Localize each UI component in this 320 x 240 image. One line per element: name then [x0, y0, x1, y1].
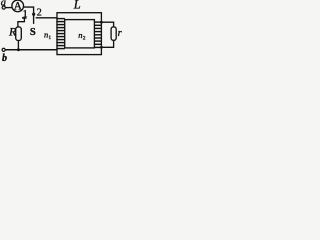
- svg-text:L: L: [73, 0, 81, 11]
- svg-text:a: a: [1, 0, 6, 8]
- ammeter A1 circle: [12, 0, 24, 12]
- junction dot at rail: [17, 48, 20, 51]
- svg-text:2: 2: [83, 36, 86, 42]
- svg-text:b: b: [2, 53, 7, 62]
- node b terminal: [2, 48, 5, 51]
- svg-text:A: A: [14, 1, 23, 13]
- secondary top tap dot: [100, 21, 103, 24]
- secondary bottom tap dot: [100, 46, 103, 49]
- svg-text:r: r: [118, 28, 122, 39]
- wire ammeter to switch corner: [24, 7, 34, 24]
- svg-text:S: S: [30, 27, 36, 38]
- resistor R body: [16, 27, 22, 41]
- load resistor r body: [111, 27, 116, 40]
- secondary winding n2 turns: [94, 22, 101, 47]
- svg-text:R: R: [8, 25, 17, 39]
- bottom rail wire b to transformer: [5, 49, 57, 51]
- wire load r to secondary bottom: [101, 40, 113, 47]
- wire switch to primary winding: [36, 17, 58, 19]
- wire contact1 to resistor R: [18, 18, 25, 27]
- switch S contact 1 dot: [22, 17, 26, 19]
- wire resistor R to bottom rail: [17, 41, 19, 50]
- svg-text:1: 1: [23, 9, 28, 20]
- wire a to ammeter: [5, 7, 12, 9]
- switch S contact 2 dot: [32, 13, 35, 16]
- node a terminal: [2, 6, 5, 9]
- svg-text:2: 2: [37, 8, 42, 19]
- primary winding n1 turns: [56, 19, 65, 49]
- transformer L core inner rectangle: [65, 20, 95, 48]
- transformer L core outer rectangle: [57, 13, 101, 55]
- svg-text:1: 1: [48, 35, 51, 41]
- wire secondary top to load r: [101, 22, 113, 27]
